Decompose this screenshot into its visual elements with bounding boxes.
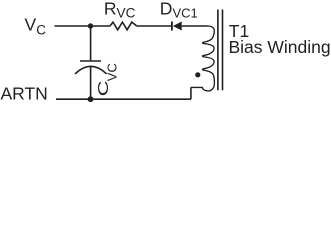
svg-text:DVC1: DVC1: [160, 0, 198, 20]
transformer core line 2: [222, 10, 224, 91]
transformer core line 1: [217, 10, 219, 91]
node junction bottom (Cvc/ARTN): [88, 96, 94, 102]
diode DVC1 triangle: [173, 22, 182, 31]
node junction top (Vc/Cvc): [88, 23, 93, 28]
T1 winding turn 1 (entry): [208, 26, 215, 39]
diode DVC1 cathode bar: [171, 21, 173, 30]
wire Vc to resistor: [55, 25, 111, 27]
T1 winding turn 3: [202, 52, 214, 65]
T1 winding turn 2: [202, 39, 214, 53]
wire winding exit step down: [190, 87, 192, 99]
capacitor CVC curved bottom plate: [75, 66, 107, 74]
wire bottom rail (ARTN): [56, 98, 191, 100]
capacitor CVC top plate: [80, 60, 101, 62]
svg-text:C: C: [94, 80, 110, 96]
wire resistor to diode: [137, 25, 171, 27]
svg-text:VC: VC: [25, 14, 47, 37]
svg-text:RVC: RVC: [104, 0, 136, 20]
polarity dot: [195, 72, 200, 77]
T1 winding turn 4 and end loop: [191, 65, 215, 91]
svg-text:ARTN: ARTN: [1, 84, 48, 104]
svg-text:VC: VC: [105, 63, 120, 81]
wire junction down to capacitor: [90, 26, 92, 60]
svg-text:Bias Winding: Bias Winding: [229, 37, 331, 57]
wire diode to winding: [182, 25, 208, 27]
resistor RVC zigzag: [110, 22, 137, 30]
capacitor bottom lead: [90, 67, 92, 99]
